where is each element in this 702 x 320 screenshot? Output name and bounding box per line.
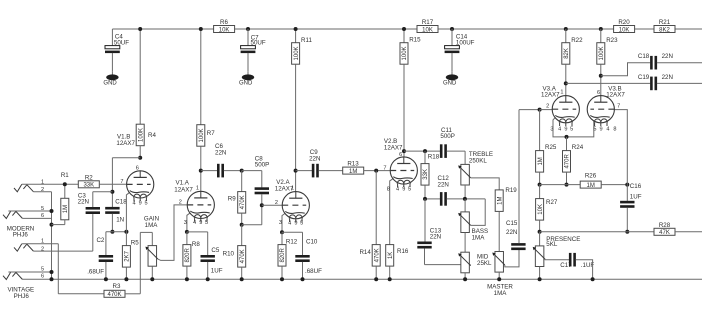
svg-text:9: 9 <box>139 201 142 207</box>
svg-text:10K: 10K <box>619 27 630 33</box>
junction: C10/ground rail <box>301 277 305 281</box>
svg-text:22N: 22N <box>309 155 320 162</box>
wire: R2 to V1.B grid (pin 7) <box>99 183 126 185</box>
svg-text:9: 9 <box>294 220 297 226</box>
svg-text:820R: 820R <box>185 248 191 263</box>
junction: treble bottom / bass top / C12 <box>463 197 467 201</box>
junction: bus/R1 bottom <box>50 223 54 227</box>
svg-text:C18: C18 <box>115 198 127 205</box>
junction: R24 bottom node <box>565 183 569 187</box>
junction: V2.A cathode node <box>280 230 284 234</box>
wire: grid node to V3.A (pin 2) <box>540 109 553 111</box>
svg-text:500P: 500P <box>255 162 269 169</box>
svg-text:GND: GND <box>239 81 253 87</box>
svg-text:7: 7 <box>617 103 620 109</box>
ground (C14) <box>451 71 453 75</box>
svg-text:9: 9 <box>199 220 202 226</box>
svg-text:1MA: 1MA <box>472 235 486 242</box>
junction: slope node / C13 <box>423 197 427 201</box>
svg-text:9: 9 <box>599 127 602 133</box>
jack J2 (modern input, pins 5/6) <box>3 211 11 219</box>
svg-text:100UF: 100UF <box>456 40 475 47</box>
svg-text:100K: 100K <box>599 46 605 60</box>
svg-text:470K: 470K <box>240 195 246 209</box>
svg-text:22N: 22N <box>430 234 441 241</box>
junction: presence/ground rail <box>538 277 542 281</box>
junction: R8/ground rail <box>185 277 189 281</box>
svg-text:R7: R7 <box>207 130 215 137</box>
wire: tail node <box>540 184 581 186</box>
svg-text:10K: 10K <box>219 27 230 33</box>
junction: R16/ground rail <box>388 277 392 281</box>
junction: bus/J4 pin5 <box>50 270 54 274</box>
junction: V2.A plate node <box>294 169 298 173</box>
svg-text:R9: R9 <box>228 196 236 203</box>
junction: R14/ground rail <box>374 277 378 281</box>
svg-text:PHJ6: PHJ6 <box>13 232 29 239</box>
svg-text:R5: R5 <box>131 240 139 247</box>
svg-text:10K: 10K <box>422 27 433 33</box>
wire: cathode node to C10 <box>282 231 303 233</box>
junction: R12/ground rail <box>280 277 284 281</box>
wire: C8 bottom to R9/R10 node <box>242 224 262 226</box>
junction: C5/ground rail <box>206 277 210 281</box>
junction: V3.A plate / C19 line <box>564 81 568 85</box>
wire: gain wiper to V1.A grid <box>158 205 187 261</box>
junction: R5/ground rail <box>124 277 128 281</box>
svg-text:PHJ6: PHJ6 <box>14 293 30 300</box>
svg-text:R4: R4 <box>148 132 156 139</box>
capacitor C7 50UF <box>247 29 249 46</box>
junction: rail/R22 <box>564 27 568 31</box>
wire: J3 pin1 to R3 drop <box>22 243 59 245</box>
junction: rail/R15 <box>402 27 406 31</box>
svg-text:6: 6 <box>399 152 402 158</box>
wire: treble wiper to R19 <box>471 178 500 190</box>
svg-text:1UF: 1UF <box>630 194 642 201</box>
junction: rail/R23 <box>599 27 603 31</box>
svg-text:22N: 22N <box>662 53 673 60</box>
wire: R15 to V2.B plate <box>403 64 405 163</box>
svg-text:5KL: 5KL <box>546 241 558 248</box>
svg-text:R26: R26 <box>585 173 597 180</box>
junction: C8 bottom / V2.A grid tap <box>260 203 264 207</box>
wire: V1.A cathode lead <box>187 213 190 232</box>
svg-text:22N: 22N <box>78 199 89 206</box>
svg-text:8: 8 <box>613 127 616 133</box>
svg-text:R12: R12 <box>286 239 298 246</box>
svg-text:6: 6 <box>136 165 139 171</box>
wire: B+ supply rail <box>112 28 702 30</box>
svg-text:1M: 1M <box>349 169 357 175</box>
junction: V1.A cathode node <box>185 230 189 234</box>
svg-text:GND: GND <box>103 81 117 87</box>
svg-text:R3: R3 <box>113 283 121 290</box>
svg-text:R10: R10 <box>223 250 235 257</box>
wire: plate node to C11/treble <box>404 150 440 152</box>
junction: C17/ground rail <box>591 277 595 281</box>
wire: R23 to V3.B plate <box>600 64 602 102</box>
wire: cathode node to C5 <box>187 231 208 233</box>
junction: cathode/R5 <box>124 230 128 234</box>
junction: bus/ground rail <box>50 277 54 281</box>
svg-text:1M: 1M <box>497 196 503 204</box>
junction: R26/C16/V3.B grid <box>625 183 629 187</box>
svg-text:1N: 1N <box>116 217 124 224</box>
svg-text:C19: C19 <box>638 74 650 81</box>
junction: rail/R11 <box>294 27 298 31</box>
junction: V3.B plate / C18 line <box>599 74 603 78</box>
wire: C13 bottom / mid wiper line <box>425 264 471 266</box>
svg-text:6: 6 <box>41 274 44 280</box>
jack J3 (vintage input, pins 1/2) <box>14 244 22 252</box>
svg-text:5: 5 <box>408 187 411 193</box>
wire: V2.B cathode lead <box>390 178 394 244</box>
svg-text:4: 4 <box>606 127 609 133</box>
svg-text:6: 6 <box>597 90 600 96</box>
svg-text:4: 4 <box>558 127 561 133</box>
svg-text:3: 3 <box>550 127 553 133</box>
svg-text:2: 2 <box>546 103 549 109</box>
svg-text:1K: 1K <box>388 252 394 259</box>
svg-text:22N: 22N <box>438 181 449 188</box>
junction: bus/J2 pin5 <box>50 209 54 213</box>
wire: R13 to V2.B grid <box>364 170 391 172</box>
junction: grid/R14 <box>374 169 378 173</box>
svg-text:1MA: 1MA <box>494 290 508 297</box>
wire: master wiper to C15 <box>505 250 519 267</box>
svg-text:R14: R14 <box>359 249 371 256</box>
wire: J2 pin5 to bus <box>8 210 51 212</box>
ground (C4) <box>111 71 113 75</box>
wire: V1.B cathode lead <box>126 192 129 231</box>
svg-text:3: 3 <box>184 220 187 226</box>
junction: master/ground rail <box>497 277 501 281</box>
wire: branch to C3 <box>93 191 113 193</box>
ground (C7) <box>247 71 249 75</box>
svg-text:470R: 470R <box>565 154 571 169</box>
svg-text:5: 5 <box>300 220 303 226</box>
svg-text:GND: GND <box>443 81 457 87</box>
svg-text:1M: 1M <box>587 183 595 189</box>
svg-text:100K: 100K <box>138 128 144 142</box>
svg-text:R19: R19 <box>505 187 517 194</box>
svg-text:5: 5 <box>570 127 573 133</box>
junction: C3/C18 top node <box>110 190 114 194</box>
svg-text:25KL: 25KL <box>477 260 492 267</box>
svg-text:R8: R8 <box>192 241 200 248</box>
svg-text:9: 9 <box>402 187 405 193</box>
svg-text:820R: 820R <box>280 248 286 263</box>
junction: rail/R4 <box>138 27 142 31</box>
wire: C19 output <box>657 82 702 84</box>
wire: R1 bottom to bus <box>52 224 65 226</box>
svg-text:.68UF: .68UF <box>87 269 104 276</box>
wire: J4 pin5 to bus <box>8 271 51 273</box>
wire: J3 pin2 to C3 bottom <box>33 250 92 252</box>
wire: rail to R4 <box>139 29 141 124</box>
svg-text:12AX7: 12AX7 <box>384 145 403 152</box>
svg-text:22N: 22N <box>506 229 517 236</box>
wire: C17 to ground rail <box>576 260 593 280</box>
wire: V3.A plate to C19 <box>566 82 651 84</box>
svg-text:50UF: 50UF <box>114 40 129 47</box>
svg-text:R16: R16 <box>397 248 409 255</box>
svg-text:8K2: 8K2 <box>659 27 670 33</box>
svg-text:5: 5 <box>593 127 596 133</box>
junction: rail/R7 <box>199 27 203 31</box>
jack J4 (vintage input, pins 5/6) <box>3 272 11 280</box>
svg-text:12AX7: 12AX7 <box>541 92 560 99</box>
svg-text:R18: R18 <box>428 153 440 160</box>
svg-text:4: 4 <box>396 187 399 193</box>
svg-text:2K7: 2K7 <box>125 250 131 261</box>
wire: ground rail <box>22 278 702 280</box>
svg-text:.68UF: .68UF <box>305 268 322 275</box>
wire: J2 pin6 to bus <box>22 217 51 219</box>
svg-text:R23: R23 <box>606 37 618 44</box>
wire: J1 pin1 to R1/R2 node <box>22 183 79 185</box>
svg-text:100K: 100K <box>294 46 300 60</box>
svg-text:2: 2 <box>275 200 278 206</box>
svg-text:C16: C16 <box>630 183 642 190</box>
svg-text:1M: 1M <box>63 205 69 213</box>
wire: V1.B cathode line <box>106 231 127 233</box>
junction: R18 tap <box>423 149 427 153</box>
svg-text:22N: 22N <box>215 149 226 156</box>
wire: rail to R7 <box>200 29 202 125</box>
svg-text:47K: 47K <box>659 230 670 236</box>
junction: R10/ground rail <box>240 277 244 281</box>
wire: V2.A cathode lead <box>282 213 285 232</box>
svg-text:82K: 82K <box>564 48 570 59</box>
junction: C2/ground rail <box>104 277 108 281</box>
svg-text:R1: R1 <box>61 172 69 179</box>
wire: V3.B grid (pin 7) riser <box>614 110 627 185</box>
svg-text:R25: R25 <box>545 144 557 151</box>
svg-text:12AX7: 12AX7 <box>606 92 625 99</box>
wire: R18 bottom to C12 <box>425 198 440 200</box>
svg-text:33K: 33K <box>83 183 94 189</box>
wire: C15 to phase inverter grid <box>518 110 520 244</box>
svg-text:C18: C18 <box>638 53 650 60</box>
wire: NFB line <box>540 231 654 233</box>
svg-text:100K: 100K <box>199 128 205 142</box>
wire: V3 cathode link <box>553 117 594 136</box>
svg-text:4: 4 <box>132 201 135 207</box>
wire: bass bottom to mid top <box>464 233 466 253</box>
junction: mid/ground rail <box>463 277 467 281</box>
svg-text:500P: 500P <box>440 133 454 140</box>
junction: cathode/R24 <box>565 135 569 139</box>
svg-text:C2: C2 <box>96 237 104 244</box>
svg-text:5: 5 <box>144 201 147 207</box>
junction: R9/R10 node <box>240 223 244 227</box>
junction: C16/NFB line <box>625 230 629 234</box>
svg-text:5: 5 <box>205 220 208 226</box>
svg-text:C10: C10 <box>306 239 318 246</box>
svg-text:C5: C5 <box>211 247 219 254</box>
svg-text:7: 7 <box>383 165 386 171</box>
wire: R11 to V2.A plate <box>295 64 297 198</box>
svg-text:9: 9 <box>564 127 567 133</box>
svg-text:10K: 10K <box>538 204 544 215</box>
svg-text:470K: 470K <box>240 249 246 263</box>
wire: R22 to V3.A plate <box>565 64 567 102</box>
junction: V2.B plate node <box>402 149 406 153</box>
svg-text:4: 4 <box>193 220 196 226</box>
svg-text:1MA: 1MA <box>145 222 159 229</box>
wire: rail to R15 <box>403 29 405 43</box>
wire: C8 branch <box>242 170 262 172</box>
wire: rail to R11 <box>295 29 297 43</box>
svg-text:R27: R27 <box>546 199 558 206</box>
junction: C18 bottom / cathode line <box>110 230 114 234</box>
svg-text:1M: 1M <box>538 157 544 165</box>
junction: C6/R9/C8 <box>240 169 244 173</box>
svg-text:7: 7 <box>120 179 123 185</box>
svg-text:R24: R24 <box>572 144 584 151</box>
junction: rail / C7 <box>246 27 250 31</box>
svg-text:12AX7: 12AX7 <box>174 186 193 193</box>
svg-text:8: 8 <box>387 187 390 193</box>
jack J1 (modern input, pins 1/2) <box>14 184 22 192</box>
svg-text:33K: 33K <box>423 169 429 180</box>
wire: V3.B plate to C18 <box>601 63 651 76</box>
svg-text:R15: R15 <box>409 37 421 44</box>
svg-text:1: 1 <box>196 185 199 191</box>
svg-text:C15: C15 <box>506 220 518 227</box>
svg-text:22N: 22N <box>662 74 673 81</box>
junction: V1.A plate node <box>199 169 203 173</box>
junction: R25 bottom node <box>538 183 542 187</box>
junction: gain pot/ground rail <box>150 277 154 281</box>
wire: C18 output <box>657 62 702 64</box>
svg-text:470K: 470K <box>107 292 121 298</box>
svg-text:1: 1 <box>560 89 563 95</box>
svg-text:2: 2 <box>179 200 182 206</box>
svg-text:4: 4 <box>288 220 291 226</box>
wire: presence wiper to C17 <box>545 258 569 260</box>
wire: to V2.A grid (pin 2) <box>262 204 282 206</box>
wire: input bus vertical <box>51 192 53 280</box>
junction: R27 bottom / NFB line <box>538 230 542 234</box>
svg-text:1: 1 <box>291 186 294 192</box>
svg-text:250KL: 250KL <box>469 157 487 164</box>
junction: V3.A grid node <box>538 108 542 112</box>
svg-text:100K: 100K <box>402 46 408 60</box>
svg-text:1UF: 1UF <box>211 267 223 274</box>
capacitor C4 50UF <box>111 29 113 46</box>
junction: rail / C14 <box>450 27 454 31</box>
svg-text:R22: R22 <box>571 37 583 44</box>
wire: J1 pin2 to input bus <box>33 191 51 193</box>
capacitor C14 100UF <box>451 29 453 46</box>
wire: R3 to gain pot top (crosses ground rail) <box>139 232 141 293</box>
junction: J1 pin1 / R1 / R2 <box>63 182 67 186</box>
svg-text:12AX7: 12AX7 <box>116 140 135 147</box>
junction: V1.B plate node <box>138 156 142 160</box>
wire: bass wiper tied to top <box>471 199 486 226</box>
svg-text:470K: 470K <box>374 248 380 262</box>
wire: J3 pin1 drop to R3 line <box>57 244 59 294</box>
svg-text:R13: R13 <box>347 160 359 167</box>
svg-text:3: 3 <box>279 220 282 226</box>
wire: plate node to coupling branch <box>112 157 140 159</box>
svg-text:R11: R11 <box>301 37 312 44</box>
svg-text:50UF: 50UF <box>251 40 266 47</box>
